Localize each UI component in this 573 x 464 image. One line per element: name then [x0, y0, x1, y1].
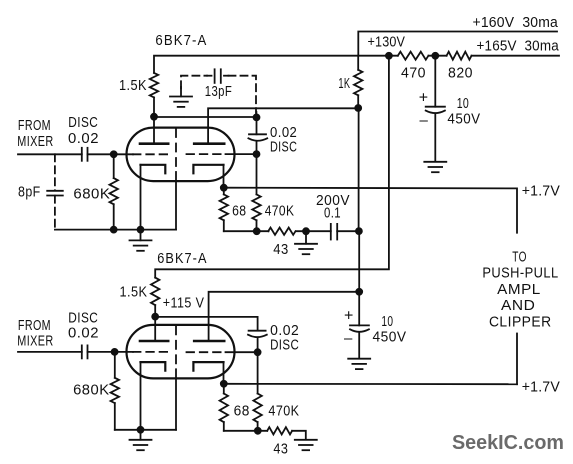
svg-text:450V: 450V — [447, 111, 480, 127]
svg-text:DISC: DISC — [68, 311, 98, 327]
resistor 820 — [447, 52, 472, 60]
svg-text:68: 68 — [234, 404, 250, 420]
node V2 right grid junction — [255, 349, 261, 355]
tube V2 left plate — [140, 340, 168, 343]
wire V2 left plate to C4 — [155, 317, 257, 331]
svg-text:+165V 30ma: +165V 30ma — [477, 38, 560, 54]
wire 43-2 to ground — [292, 431, 306, 440]
svg-text:1.5K: 1.5K — [119, 78, 147, 94]
capacitor input coupling 0.02 DISC (2) — [81, 345, 83, 358]
wire ground stem (2) — [140, 430, 142, 440]
wire +160V rail — [358, 32, 557, 56]
svg-text:13pF: 13pF — [205, 84, 232, 100]
tube V2 section divider (shield) — [175, 326, 177, 369]
svg-text:+160V 30ma: +160V 30ma — [473, 15, 559, 31]
svg-text:680K: 680K — [73, 383, 110, 399]
ground for 13pF net — [170, 96, 192, 98]
node V2 cathode / +1.7V — [221, 381, 227, 387]
tube V2 right grid — [187, 351, 226, 353]
svg-text:10: 10 — [381, 314, 393, 330]
capacitor input coupling 0.02 DISC (1) — [81, 148, 83, 161]
tube V2 left cathode — [141, 362, 166, 371]
tube V1 envelope — [127, 128, 235, 182]
svg-text:MIXER: MIXER — [17, 134, 53, 150]
svg-text:8pF: 8pF — [18, 184, 41, 200]
wire stage-2 cathode ground bus — [115, 429, 176, 431]
wire +115V bus lower (to V2 plate node) — [358, 231, 360, 292]
wire V1 left plate to C3 — [154, 116, 257, 118]
svg-text:+: + — [419, 90, 429, 107]
svg-text:680K: 680K — [73, 187, 110, 203]
svg-text:+1.7V: +1.7V — [522, 184, 560, 200]
svg-text:10: 10 — [457, 96, 470, 112]
resistor 1.5K (V2 plate load) — [151, 278, 159, 306]
capacitor C1 10uF 450V electrolytic — [434, 56, 436, 107]
svg-text:AND: AND — [501, 298, 535, 314]
svg-text:DISC: DISC — [68, 115, 98, 131]
ground stage-2 cathode — [130, 439, 152, 441]
wire V1 left cathode lead — [140, 165, 142, 230]
wire 1.5K-2 bottom lead — [154, 305, 156, 317]
node V1 left plate junction — [151, 114, 157, 120]
node junction 470/820/C1 — [432, 53, 438, 59]
ground stage-1 cathode — [130, 239, 152, 241]
svg-text:FROM: FROM — [18, 118, 51, 134]
tube V1 section divider (shield) — [175, 129, 177, 172]
resistor 680K (1) — [113, 154, 115, 178]
svg-text:450V: 450V — [373, 330, 407, 346]
svg-text:CLIPPER: CLIPPER — [489, 315, 552, 331]
svg-text:TO: TO — [512, 250, 527, 266]
wire 470-820 link — [428, 55, 446, 57]
node V1 right grid junction — [254, 151, 260, 157]
wire +130V/+165V rail segment (1.5K top to 470) — [154, 56, 398, 73]
svg-text:FROM: FROM — [18, 318, 51, 334]
tube V1 shield lead — [175, 172, 177, 230]
wire 1K bottom lead — [357, 95, 359, 108]
resistor 1K — [354, 70, 362, 96]
wire input 1 to grid — [88, 153, 134, 155]
node 0.1 cap to +115V bus — [356, 228, 362, 234]
tube V1 right cathode — [193, 165, 223, 174]
wire 13pF net to plate node — [255, 112, 257, 117]
node 470K bottom (1) — [254, 228, 260, 234]
svg-text:470K: 470K — [265, 203, 295, 219]
svg-text:0.1: 0.1 — [324, 205, 341, 221]
tube V1 left grid — [133, 153, 172, 155]
resistor 43 (2) — [267, 427, 292, 434]
wire +130V feed down to stage-2 rail — [155, 56, 389, 278]
ground below C2 — [348, 358, 370, 360]
wire +1.7V line (1) — [224, 188, 517, 233]
node junction +130V feed — [386, 53, 392, 59]
svg-text:+115 V: +115 V — [163, 295, 205, 311]
wire V1 right grid lead — [226, 153, 257, 155]
resistor 470K (2) — [257, 352, 259, 393]
resistor 43 (1) — [268, 228, 295, 235]
wire V2 right cathode lead — [223, 362, 225, 384]
svg-text:PUSH-PULL: PUSH-PULL — [482, 266, 558, 282]
node V1 cathode / +1.7V — [221, 185, 227, 191]
wire dashed 13pF net left — [181, 76, 207, 89]
wire V1 right cathode lead — [223, 165, 225, 188]
wire V2 right grid lead — [226, 351, 258, 353]
svg-text:470K: 470K — [268, 404, 299, 420]
node C3 top junction — [254, 114, 260, 120]
wire +165V rail — [472, 55, 560, 57]
svg-text:0.02: 0.02 — [68, 131, 99, 147]
svg-text:–: – — [420, 112, 429, 129]
tube V2 envelope — [127, 325, 235, 379]
svg-text:6BK7-A: 6BK7-A — [157, 251, 207, 267]
svg-text:1.5K: 1.5K — [120, 285, 148, 301]
wire V2 left plate lead — [154, 317, 156, 341]
wire stage-1 bottom bus — [224, 230, 269, 232]
node 1K bottom / +115V bus — [355, 105, 361, 111]
wire output drop (lower) — [516, 334, 518, 385]
wire 13pF ground stem — [180, 87, 182, 96]
svg-text:470: 470 — [401, 65, 426, 81]
node 43/0.1 junction — [303, 228, 309, 234]
node cathode ground (1) — [138, 227, 144, 233]
capacitor 0.1 200V — [330, 224, 332, 240]
svg-text:DISC: DISC — [270, 337, 299, 353]
wire V1 left plate lead — [153, 117, 155, 144]
svg-text:+1.7V: +1.7V — [522, 380, 560, 396]
wire input 2 to grid — [88, 351, 134, 353]
tube V1 left cathode — [141, 165, 166, 174]
svg-text:1K: 1K — [338, 76, 350, 92]
ground stage-1 bypass — [295, 243, 317, 245]
wire ground stem (1) — [140, 230, 142, 241]
wire dashed 13pF net right — [229, 76, 257, 113]
wire ground stem (43-1) — [305, 231, 307, 244]
wire stage-2 bottom bus — [224, 430, 267, 432]
wire 1.5K bottom lead — [153, 97, 155, 116]
tube V2 left grid — [133, 351, 172, 353]
node 680K bottom (1) — [111, 227, 117, 233]
wire 43 to ground node (1) — [296, 230, 330, 232]
capacitor C3 0.02 DISC — [256, 117, 258, 134]
svg-text:MIXER: MIXER — [17, 334, 53, 350]
resistor 470 — [398, 52, 429, 60]
capacitor 8pF — [47, 190, 63, 192]
svg-text:43: 43 — [273, 442, 288, 458]
wire stage-1 cathode ground bus — [55, 229, 176, 231]
ground stage-2 bias — [295, 439, 317, 441]
tube V1 right plate — [194, 142, 224, 145]
node input 2 junction — [112, 349, 118, 355]
capacitor C4 0.02 DISC — [249, 330, 266, 332]
capacitor 13pF — [207, 75, 212, 77]
wire dashed 8pF branch lower — [54, 196, 56, 230]
tube V2 right plate — [194, 340, 224, 343]
wire V2 right plate to +115V bus — [209, 292, 360, 341]
resistor 1.5K (V1 plate load) — [150, 73, 158, 98]
resistor 470K (1) — [256, 154, 258, 194]
tube V1 right grid — [187, 153, 226, 155]
node cathode ground (2) — [138, 427, 144, 433]
svg-text:0.02: 0.02 — [270, 125, 297, 141]
resistor 68 (1) — [223, 188, 225, 195]
node V2 left plate junction — [152, 314, 158, 320]
wire V2 left cathode lead — [140, 362, 142, 430]
svg-text:–: – — [344, 330, 353, 347]
node 470K bottom (2) — [255, 428, 261, 434]
tube V2 shield lead — [175, 369, 177, 430]
wire 1K top lead — [357, 56, 359, 70]
capacitor C2 10uF 450V electrolytic — [358, 292, 360, 326]
wire dashed 8pF branch upper — [54, 154, 56, 190]
wire input 2 — [18, 351, 82, 353]
svg-text:+130V: +130V — [368, 35, 406, 51]
resistor 68 (2) — [223, 384, 225, 394]
ground below C1 — [424, 161, 446, 163]
svg-text:0.02: 0.02 — [68, 326, 99, 342]
svg-text:+: + — [344, 308, 354, 325]
wire +1.7V line (2) — [224, 383, 517, 385]
tube V2 right cathode — [193, 362, 223, 371]
svg-text:68: 68 — [232, 203, 246, 219]
svg-text:SeekIC.com: SeekIC.com — [452, 432, 564, 454]
node input 1 junction — [111, 151, 117, 157]
svg-text:AMPL: AMPL — [497, 282, 541, 298]
svg-text:6BK7-A: 6BK7-A — [155, 33, 207, 49]
wire V1 right plate to 1K — [208, 108, 358, 143]
resistor 680K (2) — [114, 352, 116, 378]
wire input 1 — [18, 153, 82, 155]
svg-text:DISC: DISC — [270, 140, 297, 156]
node +115V bus / V2 plate — [356, 289, 362, 295]
wire +115V bus upper (to 0.1 cap node) — [358, 108, 360, 231]
svg-text:43: 43 — [273, 242, 288, 258]
tube V1 left plate — [140, 142, 168, 145]
svg-text:820: 820 — [448, 65, 473, 81]
